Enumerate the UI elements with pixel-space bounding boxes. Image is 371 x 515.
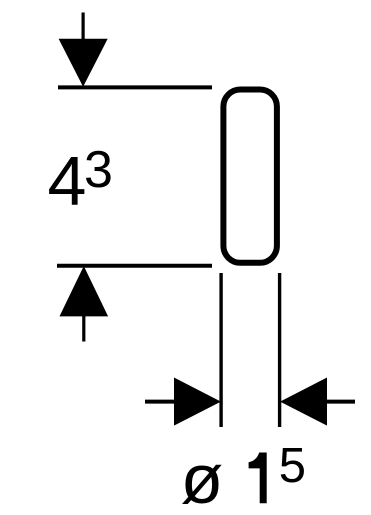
left diameter arrow (pointing right)	[145, 378, 221, 426]
right extension line below slot	[278, 273, 281, 427]
top extension line	[58, 85, 212, 89]
diameter label 1.5	[181, 439, 306, 515]
svg-text:ø: ø	[181, 440, 224, 515]
leader line above top arrow	[81, 13, 84, 41]
bottom extension line	[57, 264, 212, 268]
rounded slot outline (part profile)	[223, 90, 277, 263]
svg-text:5: 5	[279, 439, 306, 493]
right diameter arrow (pointing left)	[280, 378, 355, 426]
svg-text:4: 4	[48, 142, 87, 220]
left extension line below slot	[219, 273, 222, 427]
leader line below bottom arrow	[82, 315, 85, 342]
dimension label 4.3	[48, 141, 113, 220]
svg-text:3: 3	[84, 141, 113, 199]
bottom dimension arrow (pointing up)	[60, 266, 109, 316]
top dimension arrow (pointing down)	[59, 39, 108, 87]
